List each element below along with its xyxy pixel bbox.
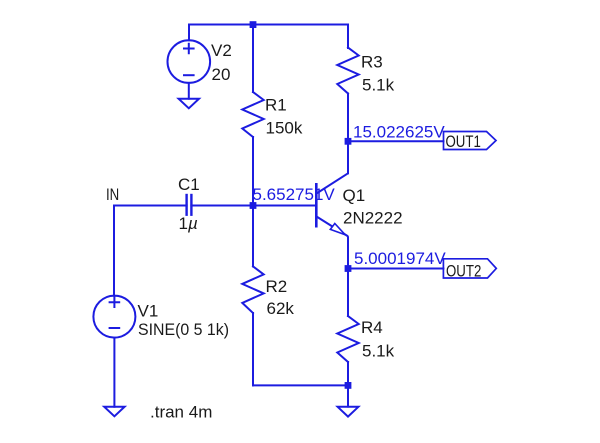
svg-text:1µ: 1µ bbox=[179, 214, 198, 233]
svg-text:5.0001974V: 5.0001974V bbox=[354, 249, 446, 268]
svg-text:5.652751V: 5.652751V bbox=[253, 185, 336, 204]
svg-text:OUT2: OUT2 bbox=[446, 262, 481, 281]
svg-text:20: 20 bbox=[212, 65, 231, 84]
svg-text:R4: R4 bbox=[361, 318, 383, 337]
svg-text:Q1: Q1 bbox=[343, 186, 366, 205]
svg-text:OUT1: OUT1 bbox=[446, 133, 481, 152]
svg-text:62k: 62k bbox=[267, 299, 295, 318]
svg-text:R3: R3 bbox=[361, 53, 383, 72]
svg-text:V2: V2 bbox=[211, 41, 232, 60]
svg-text:2N2222: 2N2222 bbox=[343, 208, 403, 227]
svg-text:IN: IN bbox=[106, 186, 119, 205]
svg-text:15.022625V: 15.022625V bbox=[353, 122, 445, 141]
svg-text:.tran 4m: .tran 4m bbox=[150, 403, 212, 422]
svg-text:R2: R2 bbox=[266, 277, 288, 296]
svg-text:150k: 150k bbox=[266, 119, 303, 138]
svg-text:R1: R1 bbox=[265, 96, 287, 115]
svg-text:SINE(0 5 1k): SINE(0 5 1k) bbox=[138, 320, 229, 339]
svg-text:5.1k: 5.1k bbox=[362, 342, 395, 361]
svg-text:5.1k: 5.1k bbox=[362, 76, 395, 95]
svg-text:C1: C1 bbox=[178, 175, 200, 194]
svg-text:V1: V1 bbox=[138, 302, 159, 321]
